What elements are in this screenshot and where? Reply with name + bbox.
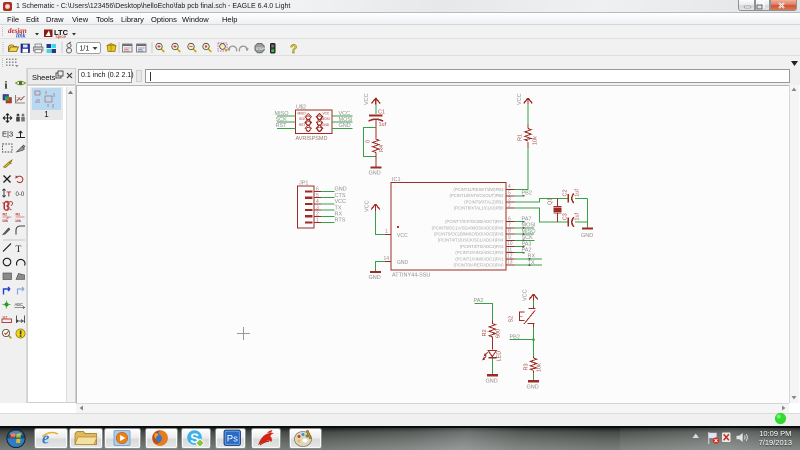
toolbar row2: designlink + LTCspice [0,25,800,39]
svg-text:MOSI: MOSI [522,223,537,229]
resistor R2 [482,321,502,350]
svg-text:MOSI: MOSI [339,117,354,123]
skype [187,430,204,447]
ground (LED) [486,375,498,384]
ground (crystal) [581,229,593,240]
svg-text:13: 13 [507,260,513,266]
svg-text:VCC: VCC [517,93,523,105]
IC1 pin names [432,187,504,268]
svg-text:S2: S2 [509,316,515,323]
IC1 left pin stubs [385,235,391,262]
node PA2 (pin 11) [515,248,532,254]
svg-text:C1: C1 [378,110,385,116]
svg-text:PA2: PA2 [522,248,532,254]
svg-text:GND: GND [369,171,381,177]
node PB2 (pin 5) [515,191,532,197]
resistor R3 [524,357,543,374]
wire pin4 stub [515,189,529,191]
wire VCC to S2 [533,301,535,307]
svg-text:(PCINT9/XTAL2)PB1: (PCINT9/XTAL2)PB1 [464,199,504,204]
svg-text:1uf: 1uf [575,212,581,220]
node MOSI (pin 7) [515,223,537,229]
wire U$2 to GND [332,127,353,129]
IE [42,429,58,448]
LED LED1 [483,351,503,362]
photoshop [224,430,241,446]
svg-text:RTS: RTS [335,218,346,224]
capacitor C1 [369,110,387,128]
sheet combo [77,43,101,54]
wire JP1 nets [321,192,335,223]
node RX (pin 12) [515,254,543,260]
svg-text:(PCINT10/INT0/CKOUT)PB2: (PCINT10/INT0/CKOUT)PB2 [450,193,505,198]
svg-text:VCC: VCC [523,289,529,301]
svg-text:ATTINY44-SSU: ATTINY44-SSU [392,273,430,279]
ground (C1 branch) [369,168,382,177]
JP1 pin numbers [316,187,319,224]
switch S2 [509,306,536,327]
resistor R4 [366,128,386,159]
stop [255,44,265,53]
svg-text:GND: GND [581,233,593,239]
node GND / CTS / VCC / TX / RX / RTS labels [335,187,347,224]
wire VCC to C1 [375,105,377,115]
node PA7 (pin 6) [515,217,532,223]
wire MISO to U$2 [277,115,296,117]
svg-text:(PCINT1/AIN0/ADC1)PA1: (PCINT1/AIN0/ADC1)PA1 [455,256,504,261]
capacitor C3 [563,212,581,226]
wire IC1 pin14 to ground [376,262,386,271]
wire pin3 to crystal top [515,198,588,202]
wire SCK to U$2 [277,121,296,123]
toolbar row3 icons [0,39,800,56]
svg-text:10k: 10k [533,136,539,145]
svg-text:9: 9 [508,235,511,241]
use [107,44,116,52]
wire U$2 to MOSI [332,121,353,123]
supply VCC arrow (S2 branch) [523,289,538,301]
svg-text:PA7: PA7 [522,217,532,223]
svg-text:TX: TX [335,205,342,211]
crystal Q1 [548,198,562,222]
undo redo [227,46,237,51]
svg-text:VCC: VCC [335,199,347,205]
svg-text:SCK: SCK [522,235,534,241]
wire R1 to pin 4 [520,148,528,190]
svg-text:10: 10 [507,241,513,247]
svg-text:4: 4 [508,184,511,190]
svg-text:C2: C2 [563,189,569,196]
svg-text:AVRISPSMD: AVRISPSMD [296,136,328,142]
svg-text:MISO: MISO [275,111,290,117]
IC1 right pin stubs [506,190,515,266]
node PA3 (pin 10) [515,241,532,247]
svg-text:RST: RST [276,123,288,129]
svg-text:IC1: IC1 [392,177,401,183]
svg-text:MISO: MISO [298,112,307,116]
wire S2 to R3 with PB2 tap [533,327,535,357]
svg-text:VCC: VCC [397,233,408,239]
ground (S2 branch) [527,381,540,390]
svg-text:10k: 10k [537,363,543,372]
svg-text:R1: R1 [518,134,524,141]
cursor crosshair [237,327,250,340]
title bar [0,0,800,13]
svg-text:(PCINT0/AREF/ADC0)PA0: (PCINT0/AREF/ADC0)PA0 [454,263,505,268]
connector JP1 [298,181,315,229]
svg-text:R3: R3 [524,363,530,370]
wire U$2 to VCC [332,115,353,117]
scrollbars [789,85,799,403]
node TX (pin 13) [515,260,543,266]
svg-text:C3: C3 [563,213,569,220]
left toolbar [0,68,27,403]
wire R4 to ground [375,158,377,167]
svg-text:VCC: VCC [339,111,351,117]
command row [0,68,800,85]
semaphore [271,44,276,54]
svg-text:R4: R4 [379,145,385,152]
resistor R1 [518,124,539,148]
wire VCC to IC1 pin 1 [376,211,386,235]
svg-text:U$2: U$2 [296,105,306,111]
svg-text:(PCINT7/ICP/OC0B/ADC7)PA7: (PCINT7/ICP/OC0B/ADC7)PA7 [445,219,504,224]
svg-text:SCK: SCK [276,117,288,123]
open [9,45,19,52]
svg-text:(PCINT11/RESET/dW)PB3: (PCINT11/RESET/dW)PB3 [453,187,504,192]
wire pin2 to crystal bottom [515,208,588,222]
folder [75,432,97,445]
svg-text:11: 11 [507,247,512,253]
taskbar [0,426,800,450]
print [34,44,44,53]
svg-text:2: 2 [508,203,511,209]
svg-text:CTS: CTS [335,193,346,199]
canvas [76,85,789,403]
svg-text:(PCINT6/OC1A/SDA/MOSI/ADC6)PA6: (PCINT6/OC1A/SDA/MOSI/ADC6)PA6 [432,225,504,230]
svg-text:MOSI: MOSI [322,117,330,121]
wire R3 to ground [533,373,535,380]
svg-text:GND: GND [369,275,381,281]
svg-text:12: 12 [507,254,513,260]
wire PA2 to R2 [475,303,493,320]
wire VCC to R1 [527,105,529,125]
ground (IC1) [369,272,382,281]
tray [693,434,700,439]
svg-text:PB2: PB2 [522,191,532,197]
menu bar [0,13,800,25]
svg-text:JP1: JP1 [299,181,308,187]
node SCK (pin 9) [515,235,535,241]
svg-text:(PCINT5/OC1B/MISO/DO/ADC5)PA5: (PCINT5/OC1B/MISO/DO/ADC5)PA5 [434,232,504,237]
run ulp [137,44,147,52]
wmp [114,431,130,446]
svg-text:5: 5 [508,190,511,196]
svg-text:(PCINT3/T0/ADC3)PA3: (PCINT3/T0/ADC3)PA3 [460,244,504,249]
wire RST to U$2 [277,127,296,129]
IC IC1 [391,177,506,279]
svg-text:7: 7 [508,223,511,229]
firefox [152,430,168,446]
svg-text:GND: GND [527,385,539,391]
svg-text:GND: GND [335,187,347,193]
svg-text:600: 600 [496,329,502,338]
svg-text:PA3: PA3 [522,241,532,247]
svg-text:6: 6 [508,216,511,222]
start orb [6,429,25,448]
svg-text:GND: GND [339,123,351,129]
svg-text:R2: R2 [482,329,488,336]
svg-text:(PCINT4/T1/USCK/SCL/ADC4)PA4: (PCINT4/T1/USCK/SCL/ADC4)PA4 [438,238,504,243]
svg-text:VCC: VCC [364,93,370,105]
svg-text:RX: RX [335,212,343,218]
svg-text:GND: GND [397,260,409,266]
cam/export [47,44,57,53]
palette app [295,430,312,447]
svg-text:(PCINT2/AIN1/ADC2)PA2: (PCINT2/AIN1/ADC2)PA2 [455,250,504,255]
svg-text:1uf: 1uf [379,122,387,128]
svg-text:TX: TX [528,260,535,266]
svg-text:3: 3 [508,197,511,203]
sheets panel [27,68,76,85]
wire LED to ground [491,359,493,375]
supply VCC arrow (R1 branch) [517,93,532,105]
connector U$2 [296,105,333,143]
svg-text:RST: RST [299,123,305,127]
svg-text:VCC: VCC [365,200,371,212]
supply VCC arrow (C1 branch) [364,93,380,105]
svg-text:1uf: 1uf [575,189,581,197]
svg-text:0: 0 [366,140,372,143]
svg-text:RX: RX [528,254,536,260]
row 4 grid icon [0,56,800,68]
JP1 pin stubs [314,192,321,223]
svg-text:SCK: SCK [299,117,306,121]
IC1 right pin numbers [507,184,513,266]
svg-text:GND: GND [322,123,330,127]
save [21,44,30,53]
svg-text:8: 8 [508,229,511,235]
wire crystal right to ground [587,198,589,227]
svg-text:Q1: Q1 [548,198,554,205]
node MISO (pin 8) [515,229,537,235]
node PB2 (S2 branch) [510,335,535,341]
svg-text:GND: GND [486,379,498,385]
green notification dot [773,411,789,427]
svg-text:VCC: VCC [323,112,330,116]
svg-text:MISO: MISO [522,229,537,235]
zoom icons [156,43,165,52]
wire loop around R4 [364,128,376,157]
eagle [258,430,274,445]
svg-text:(PCINT8/XTAL1/CLKI)PB0: (PCINT8/XTAL1/CLKI)PB0 [454,206,504,211]
capacitor C2 [563,189,581,203]
svg-text:1: 1 [385,229,388,235]
supply VCC arrow (IC1 pin1) [365,200,380,212]
script [123,44,133,52]
svg-text:LED: LED [497,351,503,362]
status bar [0,413,800,426]
board icon [67,42,72,53]
